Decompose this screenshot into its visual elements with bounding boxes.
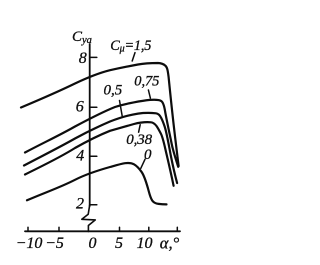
svg-text:−10: −10 [16, 235, 43, 252]
curve Cmu=0.75 [25, 100, 178, 167]
y tick 8 [90, 56, 97, 58]
y tick 6 [90, 106, 97, 108]
x tick 10 [148, 227, 150, 231]
x tick -10 [27, 227, 29, 231]
leader 0.5 [120, 101, 123, 118]
svg-text:0,5: 0,5 [104, 83, 123, 99]
svg-text:Cya: Cya [72, 29, 92, 46]
svg-text:5: 5 [115, 235, 123, 252]
svg-text:6: 6 [76, 99, 84, 116]
curve Cmu=0.5 [24, 113, 177, 183]
leader 0.75 [148, 90, 150, 98]
leader Cmu=1.5 [132, 53, 135, 61]
svg-text:0,38: 0,38 [126, 132, 152, 148]
curve Cmu=0 [27, 163, 167, 204]
svg-text:−5: −5 [45, 235, 64, 252]
curve Cmu=0.38 [25, 122, 174, 186]
y tick 2 [90, 204, 97, 206]
svg-text:8: 8 [79, 50, 87, 67]
svg-text:α,°: α,° [160, 234, 180, 253]
svg-text:0: 0 [144, 147, 152, 163]
x tick 15 (end) [176, 227, 178, 231]
svg-text:0,75: 0,75 [134, 74, 159, 90]
y tick 4 [90, 155, 97, 157]
x-axis [25, 230, 180, 232]
svg-text:4: 4 [76, 148, 84, 165]
svg-text:2: 2 [76, 196, 84, 213]
y-axis [89, 44, 91, 206]
leader 0 [141, 159, 145, 168]
svg-text:10: 10 [137, 235, 153, 252]
svg-text:0: 0 [89, 235, 97, 252]
svg-text:Cμ=1,5: Cμ=1,5 [110, 38, 151, 55]
y-axis break (zigzag) [82, 205, 96, 232]
curve Cmu=1.5 [21, 63, 179, 166]
x tick -5 [58, 227, 60, 231]
leader 0.38 [139, 125, 141, 133]
x tick 5 [119, 227, 121, 231]
